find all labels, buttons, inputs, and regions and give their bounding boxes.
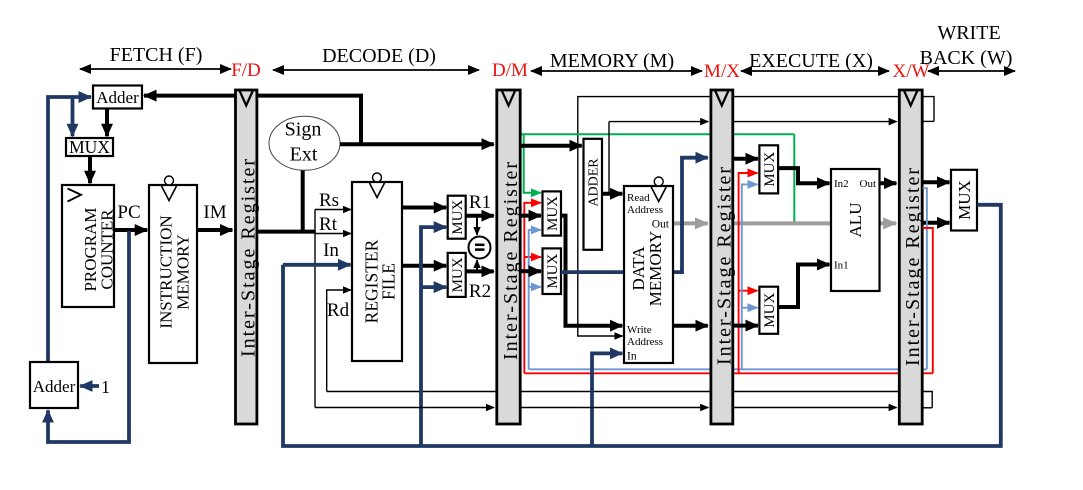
wire red branch to lower execute mux <box>739 290 758 292</box>
svg-text:Inter-Stage Register: Inter-Stage Register <box>713 165 735 365</box>
instruction memory <box>149 176 197 363</box>
svg-text:MEMORY: MEMORY <box>646 231 665 307</box>
wire light-blue riser at M/X <box>742 184 758 369</box>
svg-text:Inter-Stage Register: Inter-Stage Register <box>500 160 522 360</box>
node constant 1 label <box>101 377 110 397</box>
mux M8 (write-back mux) <box>951 170 977 231</box>
wire Rs field into register file <box>315 209 351 211</box>
wire green vertical ending on gray line <box>793 134 795 221</box>
svg-text:PC: PC <box>117 202 140 223</box>
adder A2 (PC increment adder) <box>30 362 78 408</box>
adder A1 (branch adder) <box>93 86 142 109</box>
svg-text:IM: IM <box>203 202 226 223</box>
wire address mux output to write address <box>561 216 622 326</box>
svg-text:FILE: FILE <box>379 263 399 300</box>
program counter <box>62 185 117 307</box>
wire PC value tap down to increment adder (navy) <box>48 231 129 442</box>
memory stage double arrow <box>531 70 702 72</box>
svg-text:Address: Address <box>627 336 663 348</box>
wire register-number forward into D/M register (thin) <box>315 407 494 409</box>
wire X/W register to write-back mux (lower) <box>923 221 950 225</box>
node Rs label <box>319 190 339 211</box>
svg-text:WRITE: WRITE <box>937 22 1000 44</box>
svg-text:Adder: Adder <box>96 88 139 107</box>
wire light-blue branch to lower execute mux <box>742 307 758 309</box>
svg-text:M/X: M/X <box>704 61 740 82</box>
inter-stage register F/D <box>236 90 260 424</box>
wire forwarded address down to read address (thin) <box>608 122 610 193</box>
wire D/M register to ADDER <box>522 144 582 148</box>
wire write-back bottom bus (navy) <box>283 265 1003 446</box>
wire IM output bus into F/D register <box>197 228 232 232</box>
wire light-blue write-back riser at D/M <box>529 230 541 369</box>
node R1 label <box>469 192 491 213</box>
wire R2 from D/M register to data mux <box>522 269 542 273</box>
node IM label <box>203 202 226 223</box>
svg-text:MUX: MUX <box>450 257 466 292</box>
wire In1 mux output into ALU <box>778 265 829 308</box>
wire write-back mux output to bottom bus (navy) <box>977 205 1001 446</box>
wire Rs Rt field vertical <box>314 210 316 408</box>
svg-text:Rs: Rs <box>319 190 339 211</box>
wire constant 1 into adder <box>80 384 99 388</box>
wire thin loop right of X/W (bottom) <box>923 407 933 409</box>
node R2 label <box>469 281 491 302</box>
wire sign-ext output into D/M register <box>340 142 494 146</box>
wire immediate from F/D register down to sign-ext output line <box>258 96 362 143</box>
stage label FETCH (F) <box>110 44 203 66</box>
wire write-data mux output to M/X register (navy) <box>561 158 708 272</box>
wire red tap at X/W <box>923 228 933 373</box>
svg-text:Write: Write <box>627 324 652 336</box>
wire instruction bus from F/D register <box>258 230 316 234</box>
wire PC output bus <box>114 228 147 232</box>
wire green forward path horizontal <box>522 133 795 135</box>
wire Adder output down into fetch MUX <box>105 109 109 137</box>
wire X/W register to write-back mux (upper) <box>923 180 950 184</box>
svg-text:R1: R1 <box>469 192 491 213</box>
svg-text:COUNTER: COUNTER <box>98 209 117 290</box>
mux M5 (memory write-data mux) <box>543 248 562 294</box>
pipeline register label D/M <box>492 60 528 81</box>
svg-text:MEMORY: MEMORY <box>173 234 192 310</box>
stage label WRITE BACK (W) <box>920 22 1013 69</box>
wire write-back data into register file In (navy) <box>283 263 351 267</box>
wire write-back value riser to decode muxes (navy) <box>421 227 446 446</box>
pipeline register label F/D <box>231 60 261 81</box>
mux M3 (R2 forward mux) <box>448 253 466 297</box>
wire In2 mux output into ALU <box>778 168 829 183</box>
svg-text:BACK (W): BACK (W) <box>920 47 1013 69</box>
svg-text:In1: In1 <box>834 260 849 272</box>
wire branch adder output from F/D register to Adder <box>144 94 235 98</box>
register file <box>352 173 402 361</box>
wire light-blue branch to lower memory mux <box>529 286 541 288</box>
wire M/X register to execute operand mux <box>734 157 758 161</box>
svg-text:D/M: D/M <box>492 60 528 81</box>
svg-text:Sign: Sign <box>285 119 322 141</box>
wire thin loop right of X/W (top) <box>923 120 935 122</box>
svg-text:In: In <box>323 240 339 261</box>
data memory <box>624 177 673 363</box>
wire PC+1 into fetch MUX (navy branch) <box>71 97 75 136</box>
wire R2 tap into comparator <box>476 260 478 271</box>
wire forwarded address M/X to X/W register (thin) <box>734 121 897 123</box>
wire red riser at M/X <box>739 173 758 373</box>
execute stage double arrow <box>741 70 889 72</box>
pipeline register label M/X <box>704 61 740 82</box>
svg-text:Adder: Adder <box>33 377 76 396</box>
mux M4 (memory address mux) <box>543 191 562 235</box>
svg-text:1: 1 <box>101 377 110 397</box>
svg-text:ADDER: ADDER <box>587 158 602 207</box>
svg-text:EXECUTE (X): EXECUTE (X) <box>749 50 873 72</box>
adder A3 (memory address ADDER) <box>584 139 603 250</box>
mux M2 (R1 forward mux) <box>448 196 466 239</box>
wire PC+1 feedback up the left side (navy) <box>48 97 91 361</box>
decode stage double arrow <box>273 69 479 71</box>
mux M1 (next-PC mux) <box>66 137 113 157</box>
svg-text:Rd: Rd <box>327 300 350 321</box>
alu U1 <box>831 169 880 291</box>
pipeline register label X/W <box>893 61 930 82</box>
wire MUX output into Program Counter <box>88 156 92 183</box>
svg-text:Address: Address <box>627 204 663 216</box>
wire red write-back bottom horizontal <box>524 372 933 374</box>
wire register file read port 2 <box>402 264 446 268</box>
wire write-back address return (top thin, X/W loop to Write Address) <box>578 97 934 336</box>
svg-text:MUX: MUX <box>545 254 561 289</box>
wire red branch to lower memory mux <box>524 256 541 258</box>
wire R1 tap into comparator <box>476 216 478 235</box>
stage label MEMORY (M) <box>550 50 674 72</box>
svg-text:Inter-Stage Register: Inter-Stage Register <box>238 157 260 357</box>
wire forwarded address into M/X register (thin) <box>609 121 708 123</box>
mux M6 (ALU In2 mux) <box>759 145 778 193</box>
node PC label <box>117 202 140 223</box>
fetch stage double arrow <box>80 68 231 70</box>
svg-text:MUX: MUX <box>69 137 110 157</box>
wire register-number forward M/X to X/W (thin) <box>734 407 897 409</box>
wire light-blue write-back bottom horizontal <box>529 368 927 370</box>
node In label <box>323 240 339 261</box>
wire register-number return (bottom thin, X/W loop to Rd) <box>327 392 933 408</box>
wire R1 into D/M register <box>466 214 494 218</box>
mux M7 (ALU In1 mux) <box>759 287 778 334</box>
wire gray data-memory out segment 1 <box>673 221 708 225</box>
wire register file read port 1 <box>402 206 446 210</box>
inter-stage register D/M <box>497 90 522 424</box>
svg-text:MUX: MUX <box>762 152 778 187</box>
wire R2 into D/M register <box>466 269 494 273</box>
wire register-number forward D/M to M/X (thin) <box>521 407 708 409</box>
svg-text:FETCH (F): FETCH (F) <box>110 44 203 66</box>
stage label EXECUTE (X) <box>749 50 873 72</box>
wire ADDER output into read address <box>602 192 622 196</box>
svg-text:MUX: MUX <box>545 196 561 231</box>
sign extender <box>269 116 340 170</box>
wire light-blue tap at X/W <box>923 188 927 369</box>
svg-text:Out: Out <box>652 219 670 231</box>
wire R1 from D/M register to address mux <box>522 214 542 218</box>
wire Rd write-register return into register file <box>327 290 351 392</box>
svg-text:MEMORY (M): MEMORY (M) <box>550 50 674 72</box>
inter-stage register X/W <box>899 90 924 424</box>
wire green forward branch down to address mux <box>524 134 541 193</box>
svg-text:In: In <box>627 351 637 363</box>
svg-text:R2: R2 <box>469 281 491 302</box>
svg-text:ALU: ALU <box>846 203 865 238</box>
wire M/X register write-address to lower execute mux <box>734 324 758 328</box>
wire write-address bus through data memory to M/X register <box>673 324 708 328</box>
node Rd label <box>327 300 350 321</box>
wire sign-ext input from instruction bus <box>301 171 305 232</box>
wire Rt field into register file <box>315 233 351 235</box>
svg-text:MUX: MUX <box>955 180 974 220</box>
wire write-back data riser into data memory In (navy) <box>592 353 622 446</box>
svg-text:Out: Out <box>860 178 877 190</box>
svg-text:MUX: MUX <box>450 200 466 235</box>
stage label DECODE (D) <box>322 45 436 67</box>
svg-text:F/D: F/D <box>231 60 261 81</box>
wire ALU output into X/W register <box>880 181 897 185</box>
svg-text:MUX: MUX <box>762 293 778 328</box>
write-back stage double arrow <box>928 70 1015 72</box>
svg-text:Read: Read <box>627 192 650 204</box>
wire red write-back riser at D/M <box>524 203 541 373</box>
wire gray data-memory out segment 2 to X/W register <box>733 221 896 225</box>
svg-text:Inter-Stage Register: Inter-Stage Register <box>902 166 924 366</box>
svg-text:Rt: Rt <box>319 214 338 235</box>
node Rt label <box>319 214 338 235</box>
svg-text:In2: In2 <box>834 178 849 190</box>
svg-text:Ext: Ext <box>290 143 318 165</box>
inter-stage register M/X <box>711 90 735 424</box>
wire write-back value branch to lower decode mux (navy) <box>421 285 446 289</box>
comparator (equality check) <box>469 237 491 259</box>
svg-text:DECODE (D): DECODE (D) <box>322 45 436 67</box>
